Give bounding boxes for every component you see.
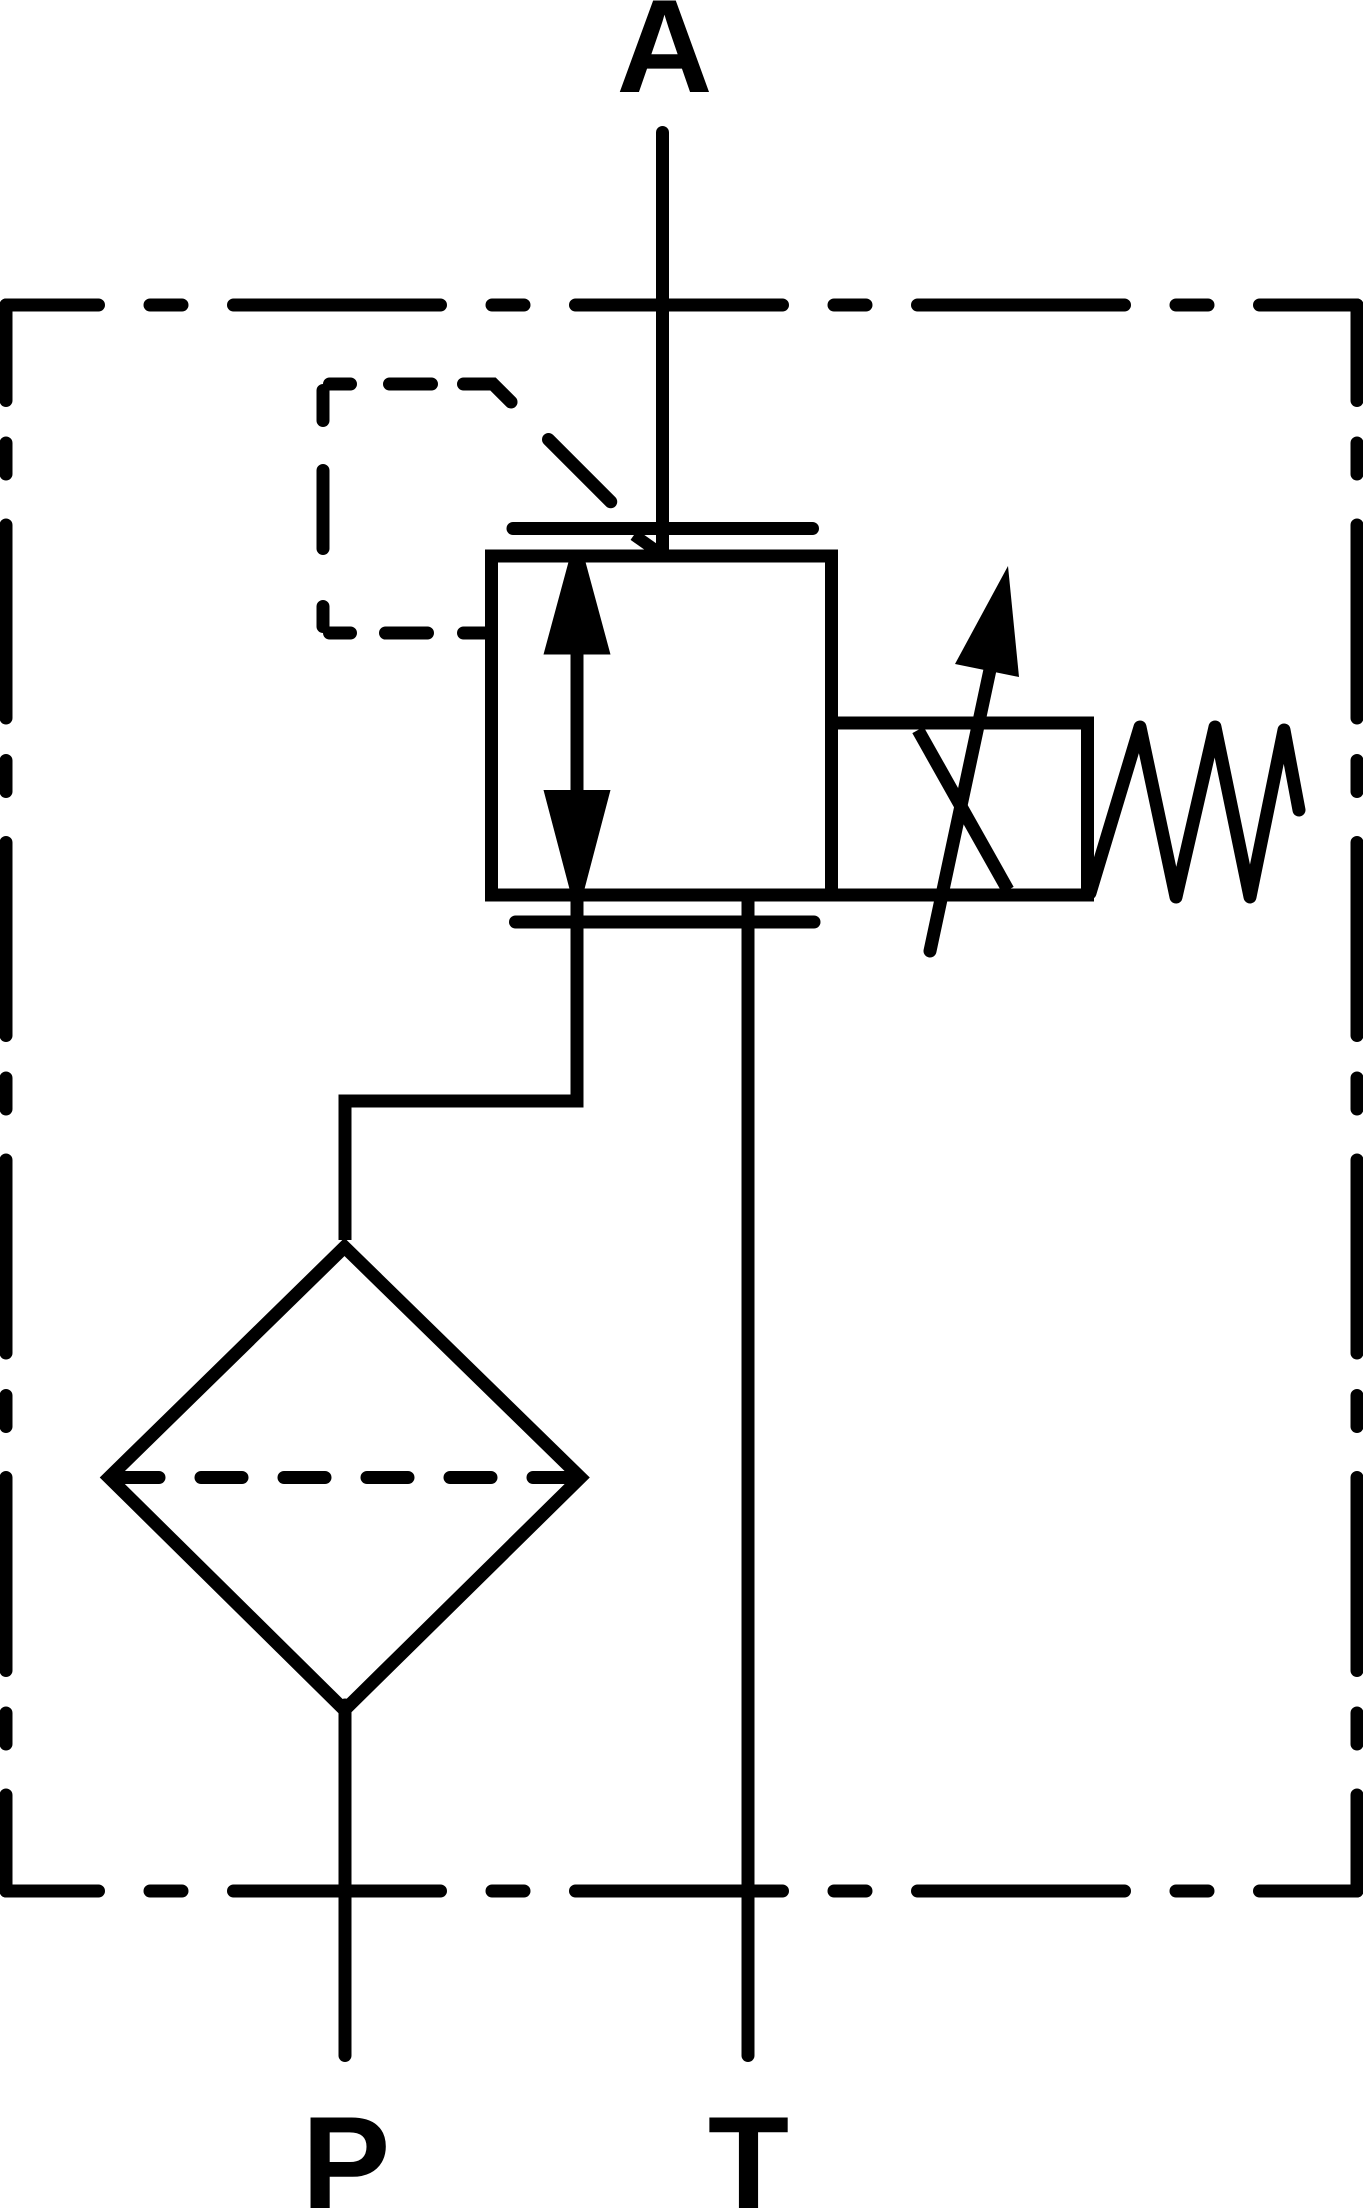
svg-text:T: T — [708, 2090, 789, 2208]
svg-text:A: A — [616, 0, 712, 121]
svg-text:P: P — [302, 2090, 391, 2208]
